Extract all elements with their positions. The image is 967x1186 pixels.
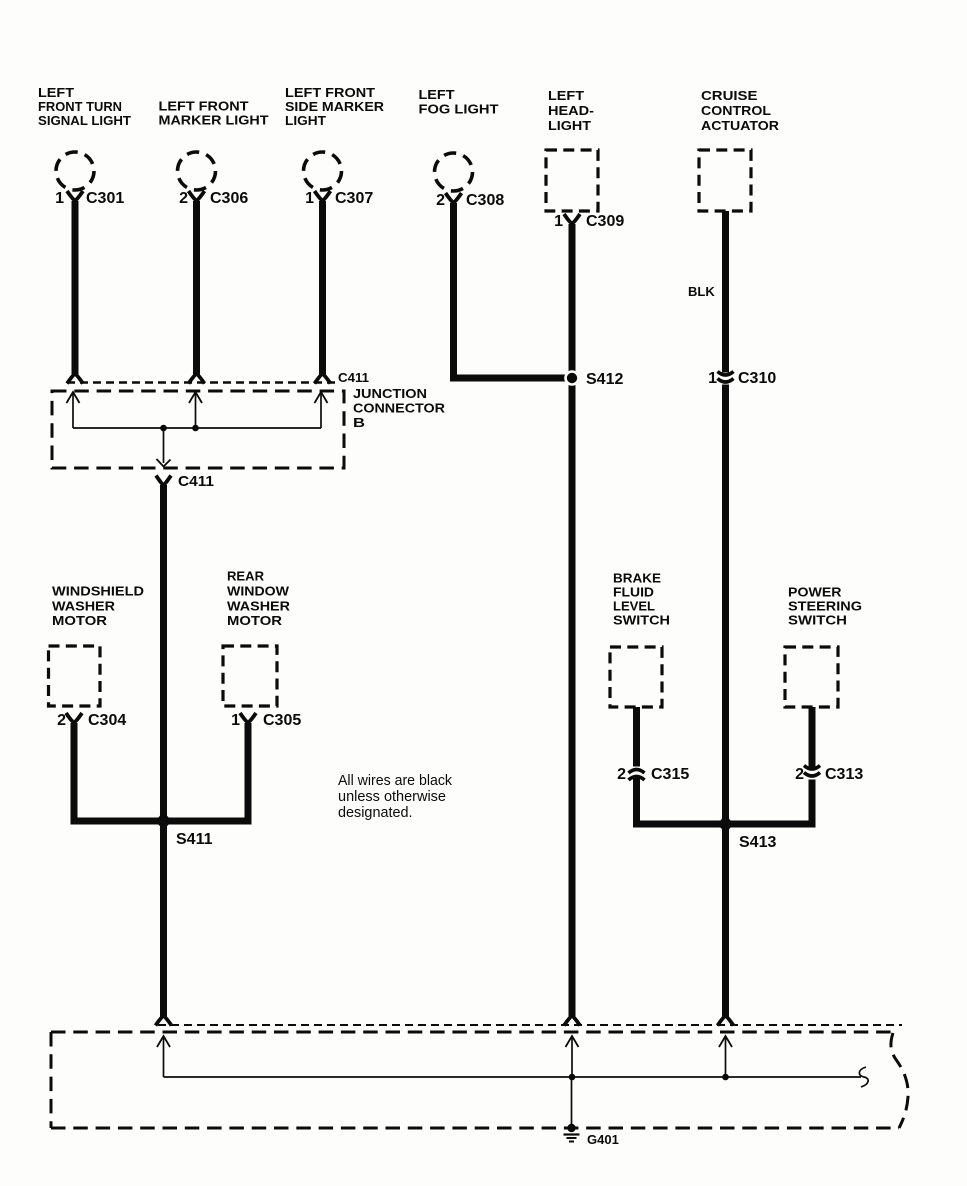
label: junction connector B (353, 386, 446, 430)
junction internal arrow at turn signal wire (67, 392, 80, 428)
wire: turn signal light to junction connector (72, 201, 79, 375)
lamp symbol: left front marker light (178, 152, 216, 190)
svg-text:C313: C313 (825, 766, 863, 783)
ground bus connector row dashed line (158, 1024, 902, 1026)
junction internal arrow at side marker wire (315, 392, 328, 428)
svg-text:G401: G401 (587, 1132, 619, 1147)
svg-text:WASHER: WASHER (227, 599, 291, 614)
svg-text:SIDE MARKER: SIDE MARKER (285, 99, 385, 114)
svg-text:C304: C304 (88, 712, 126, 729)
box symbol: left headlight (546, 150, 598, 211)
connector flare: headlight wire at ground bus row (564, 1016, 580, 1026)
label: windshield washer motor (52, 584, 144, 629)
splice S411 (157, 815, 212, 848)
svg-text:C411: C411 (338, 370, 369, 385)
svg-text:LIGHT: LIGHT (548, 118, 591, 133)
ground bus node dot at cruise branch (722, 1074, 729, 1081)
ground G401 symbol (564, 1124, 619, 1147)
box symbol: cruise control actuator (699, 150, 751, 211)
label: left front turn signal light (38, 85, 131, 128)
wire: ground drop to G401 (571, 1077, 573, 1128)
junction internal node dot left (160, 425, 167, 432)
svg-text:1: 1 (708, 370, 717, 387)
svg-text:FRONT TURN: FRONT TURN (38, 99, 122, 114)
svg-text:FOG LIGHT: FOG LIGHT (419, 102, 499, 117)
label: power steering switch (788, 585, 862, 628)
wire color label BLK (688, 284, 715, 299)
connector C301 (55, 190, 124, 207)
svg-text:WINDOW: WINDOW (227, 584, 290, 599)
connector C315 (617, 766, 689, 783)
label: brake fluid level switch (613, 571, 670, 628)
svg-text:C307: C307 (335, 190, 373, 207)
svg-text:2: 2 (179, 190, 188, 207)
junction internal bus line (73, 427, 321, 429)
svg-text:MARKER LIGHT: MARKER LIGHT (159, 113, 269, 128)
svg-text:LEFT FRONT: LEFT FRONT (159, 99, 249, 114)
svg-text:2: 2 (57, 712, 66, 729)
svg-text:LEFT: LEFT (548, 88, 584, 103)
svg-text:WASHER: WASHER (52, 599, 116, 614)
ground bus internal arrow at headlight branch (566, 1036, 579, 1077)
wire: brake fluid level switch upper segment (633, 707, 640, 767)
wire: fog light down and over to S412 (454, 203, 567, 378)
ground bus node dot at headlight branch (569, 1074, 576, 1081)
junction internal node dot right (192, 425, 199, 432)
label: left fog light (419, 87, 499, 117)
wire: cruise control actuator lower segment to ground bus (722, 385, 729, 1017)
svg-text:C308: C308 (466, 192, 504, 209)
svg-text:MOTOR: MOTOR (227, 613, 283, 628)
svg-text:1: 1 (231, 712, 240, 729)
svg-text:BRAKE: BRAKE (613, 571, 661, 586)
note: all wires are black (338, 773, 453, 821)
splice S413 (719, 818, 776, 851)
svg-text:All wires are black: All wires are black (338, 773, 453, 789)
connector C310 (708, 370, 776, 387)
connector C411 lower (156, 473, 214, 490)
svg-text:unless otherwise: unless otherwise (338, 789, 446, 805)
label: cruise control actuator (701, 88, 780, 133)
wire: brake fluid level switch to S413 (637, 778, 723, 824)
svg-text:C310: C310 (738, 370, 776, 387)
ground bus line break squiggle (859, 1067, 868, 1087)
junction connector B box (52, 391, 344, 468)
svg-text:CONNECTOR: CONNECTOR (353, 401, 446, 416)
connector C307 (305, 190, 373, 207)
svg-text:C305: C305 (263, 712, 301, 729)
svg-text:BLK: BLK (688, 284, 715, 299)
wire: power steering switch to S413 (729, 780, 812, 825)
svg-text:LEFT FRONT: LEFT FRONT (285, 85, 375, 100)
wire: junction connector output through S411 to ground bus (160, 485, 167, 1017)
ground bus box top edge (51, 1031, 891, 1034)
svg-text:LIGHT: LIGHT (285, 113, 326, 128)
junction internal arrow at marker wire (189, 392, 202, 428)
ground bus box wavy right edge (891, 1033, 908, 1128)
wire: power steering switch upper segment (809, 707, 816, 769)
box symbol: power steering switch (785, 647, 838, 707)
connector C304 (57, 712, 126, 729)
svg-text:C309: C309 (586, 213, 624, 230)
label: left front side marker light (285, 85, 385, 128)
wire: side marker light to junction connector (319, 201, 326, 375)
svg-text:LEVEL: LEVEL (613, 599, 655, 614)
connector C309 (554, 213, 624, 230)
svg-text:S413: S413 (739, 834, 776, 851)
label: rear window washer motor (227, 569, 291, 629)
ground bus internal arrow at S411 branch (157, 1036, 170, 1077)
connector flare: marker wire at C411 (189, 374, 205, 384)
svg-text:C411: C411 (178, 473, 214, 490)
lamp symbol: left front side marker light (304, 152, 342, 190)
svg-text:2: 2 (795, 766, 804, 783)
svg-text:JUNCTION: JUNCTION (353, 386, 427, 401)
svg-text:MOTOR: MOTOR (52, 613, 108, 628)
svg-text:S412: S412 (586, 371, 623, 388)
wire: rear window washer motor to S411 (167, 723, 248, 821)
connector flare: cruise wire at ground bus row (718, 1016, 734, 1026)
svg-text:POWER: POWER (788, 585, 842, 600)
svg-text:C315: C315 (651, 766, 689, 783)
connector flare: turn signal wire at C411 (67, 374, 83, 384)
svg-text:SWITCH: SWITCH (613, 613, 670, 628)
svg-text:HEAD-: HEAD- (548, 103, 594, 118)
svg-text:2: 2 (617, 766, 626, 783)
ground bus internal horizontal line (164, 1076, 862, 1078)
ground bus internal arrow at cruise branch (719, 1036, 732, 1077)
connector C305 (231, 712, 301, 729)
junction internal down arrow to output (157, 428, 171, 467)
connector flare: S411 branch at ground bus row (156, 1016, 172, 1026)
svg-text:STEERING: STEERING (788, 599, 862, 614)
wire: windshield washer motor to S411 (74, 723, 160, 821)
box symbol: brake fluid level switch (610, 647, 662, 707)
svg-text:CONTROL: CONTROL (701, 103, 771, 118)
connector C306 (179, 190, 248, 207)
connector C313 (795, 766, 863, 784)
wire: headlight to ground bus (569, 224, 576, 1017)
wire: cruise control actuator upper segment (722, 211, 729, 373)
connector flare: side marker wire at C411 (315, 374, 331, 384)
wire: marker light to junction connector (193, 201, 200, 375)
svg-text:LEFT: LEFT (38, 85, 74, 100)
label: left headlight (548, 88, 594, 133)
lamp symbol: left fog light (435, 153, 473, 191)
junction connector B: C411 upper connector row (67, 370, 369, 385)
svg-text:C306: C306 (210, 190, 248, 207)
svg-text:REAR: REAR (227, 569, 265, 584)
ground bus box left edge (50, 1032, 53, 1128)
svg-text:SIGNAL LIGHT: SIGNAL LIGHT (38, 113, 131, 128)
connector C308 (436, 192, 504, 209)
svg-text:2: 2 (436, 192, 445, 209)
label: left front marker light (159, 99, 269, 128)
box symbol: rear window washer motor (223, 646, 277, 706)
splice S412 (564, 370, 623, 388)
svg-text:ACTUATOR: ACTUATOR (701, 118, 780, 133)
svg-text:SWITCH: SWITCH (788, 613, 847, 628)
svg-text:designated.: designated. (338, 805, 413, 821)
svg-text:LEFT: LEFT (419, 87, 455, 102)
ground bus box bottom edge (51, 1127, 899, 1130)
svg-text:1: 1 (554, 213, 563, 230)
svg-text:1: 1 (55, 190, 64, 207)
svg-text:CRUISE: CRUISE (701, 88, 758, 103)
lamp symbol: left front turn signal light (56, 152, 94, 190)
svg-text:WINDSHIELD: WINDSHIELD (52, 584, 144, 599)
svg-text:C301: C301 (86, 190, 124, 207)
box symbol: windshield washer motor (49, 646, 101, 706)
svg-text:B: B (353, 415, 365, 430)
svg-text:1: 1 (305, 190, 314, 207)
svg-text:FLUID: FLUID (613, 585, 654, 600)
svg-text:S411: S411 (176, 831, 213, 848)
